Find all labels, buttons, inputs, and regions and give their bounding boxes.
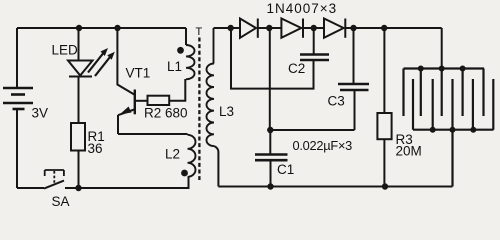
transistor VT1	[117, 28, 147, 134]
label C2	[288, 61, 305, 76]
wire: node B drop (crosses C2 wire)	[269, 28, 271, 130]
svg-text:VT1: VT1	[126, 66, 151, 81]
wire: bottom rail left circuit	[17, 187, 190, 189]
wire: top feed to grid	[441, 28, 443, 69]
label VT1	[126, 66, 151, 81]
switch SA	[44, 170, 64, 189]
junction dot node A	[228, 25, 234, 31]
label T	[196, 26, 203, 38]
svg-text:C1: C1	[277, 162, 294, 177]
label 0.022uF×3	[293, 138, 353, 153]
electrode grid top comb	[404, 69, 485, 117]
resistor R2	[148, 96, 170, 105]
svg-text:SA: SA	[52, 194, 70, 209]
label 3V	[32, 106, 49, 121]
capacitor C2	[300, 28, 329, 60]
svg-text:36: 36	[88, 141, 103, 156]
battery 3V	[3, 88, 33, 109]
label L2	[165, 147, 180, 162]
LED arrows	[88, 48, 115, 76]
junction dot node B	[266, 25, 272, 31]
resistor R1	[71, 123, 85, 151]
resistor R3	[377, 28, 391, 187]
label SA	[52, 194, 70, 209]
wire: R2 to L1 bottom	[169, 79, 185, 101]
inductor L3	[206, 28, 218, 187]
svg-text:T: T	[196, 26, 203, 38]
wire: LED branch upper	[78, 28, 80, 60]
junction dot R3 bottom	[382, 183, 388, 189]
wire: node A drop to C2 bottom	[231, 28, 314, 89]
label C1	[277, 162, 294, 177]
diode D1 1N4007	[240, 19, 281, 38]
label C3	[328, 94, 345, 109]
junction dot node D (C3 top)	[350, 25, 356, 31]
LED D	[68, 61, 93, 124]
diode D3 1N4007	[324, 19, 442, 38]
svg-text:L3: L3	[219, 104, 234, 119]
svg-text:R2 680: R2 680	[144, 106, 188, 121]
transformer core T	[198, 38, 200, 181]
label L1	[167, 59, 182, 74]
junction dot C1 bottom	[267, 183, 273, 189]
label R1 36	[88, 129, 105, 156]
label R3 20M	[396, 132, 422, 159]
label LED	[52, 43, 79, 58]
L2 phase dot	[181, 170, 188, 177]
junction dot R3 top	[381, 25, 387, 31]
grid junction dots bottom	[430, 127, 477, 133]
capacitor C3	[338, 28, 369, 130]
junction dot node Y	[267, 127, 273, 133]
svg-text:L1: L1	[167, 59, 182, 74]
capacitor C1	[255, 130, 288, 187]
wire: emitter to L2 top	[118, 133, 188, 135]
svg-text:3V: 3V	[32, 106, 49, 121]
wire: R1 bottom lead	[78, 151, 80, 189]
diode D2 1N4007	[281, 19, 324, 38]
svg-text:0.022µF×3: 0.022µF×3	[293, 138, 353, 153]
L1 phase dot	[177, 47, 184, 54]
grid junction dots top	[418, 66, 466, 72]
inductor L1	[186, 28, 195, 79]
electrode grid bottom comb	[413, 79, 494, 187]
junction dot node C	[311, 25, 317, 31]
svg-text:20M: 20M	[396, 144, 422, 159]
wire: bottom rail right circuit	[218, 186, 452, 188]
label R2 680	[144, 106, 188, 121]
svg-text:L2: L2	[165, 147, 180, 162]
svg-text:1N4007×3: 1N4007×3	[267, 1, 338, 16]
junction dot R1 bottom	[75, 185, 81, 191]
junction dot collector top	[114, 25, 120, 31]
wire: left rail	[16, 28, 18, 188]
wire: L3 top to D1	[214, 27, 241, 29]
inductor L2	[188, 135, 196, 188]
wire: node Y horizontal	[270, 129, 355, 131]
svg-text:C2: C2	[288, 61, 305, 76]
label L3	[219, 104, 234, 119]
svg-text:C3: C3	[328, 94, 345, 109]
wire: top rail left circuit	[17, 27, 186, 29]
junction dot LED top	[76, 25, 82, 31]
label 1N4007×3	[267, 1, 338, 16]
svg-text:LED: LED	[52, 43, 79, 58]
